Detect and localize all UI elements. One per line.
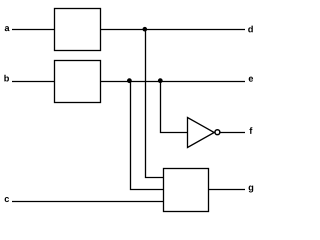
node a (input label) [5,26,10,31]
node c (input label) [5,197,9,202]
junction dot 1 on wire e [127,78,132,83]
node b (input label) [4,75,9,82]
node f (output label) [249,127,252,134]
wire from d junction down to U3 input 1 [146,30,165,178]
wire d (U1 output) [101,29,246,31]
wire e (U2 output) [101,81,246,83]
node g (output label) [249,186,254,193]
gate box U2 (middle) [55,61,101,103]
node d (output label) [248,26,253,33]
node e (output label) [249,77,253,82]
wire from e junction 1 down to U3 input 2 [131,82,165,190]
junction dot 2 on wire e [158,78,163,83]
inverter U4 output bubble [215,130,220,135]
wire a [12,29,55,31]
wire g (U3 output) [209,189,246,191]
junction dot on wire d [143,27,148,32]
gate box U3 (bottom) [164,169,209,212]
gate box U1 (top) [55,9,101,51]
inverter U4 triangle [188,118,215,148]
wire b [12,81,55,83]
wire c [12,201,164,203]
wire from e junction 2 down to inverter input [161,82,188,133]
wire f (inverter output) [220,132,245,134]
